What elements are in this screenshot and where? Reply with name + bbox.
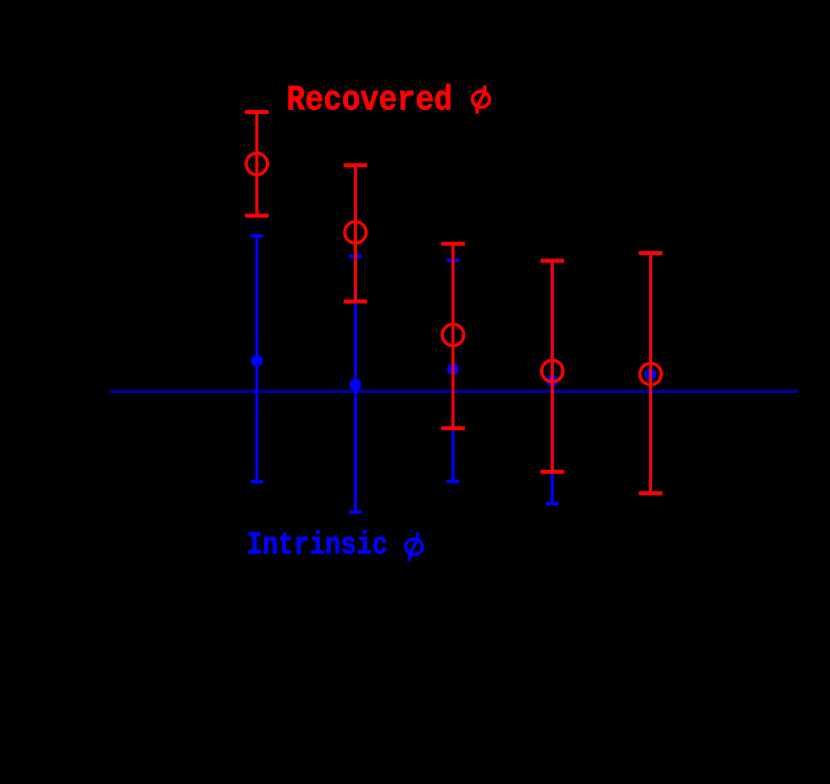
- svg-text:Intrinsic: Intrinsic: [247, 529, 388, 564]
- svg-text:Recovered: Recovered: [287, 80, 453, 120]
